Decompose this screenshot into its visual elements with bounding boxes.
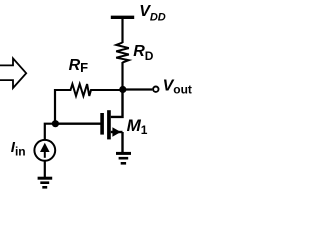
svg-text:RF: RF	[69, 57, 89, 75]
svg-text:Iin: Iin	[11, 139, 26, 158]
Vout open terminal circle	[153, 87, 158, 92]
node gate junction dot	[52, 120, 59, 127]
transistor M1 drain stub	[111, 90, 123, 117]
svg-text:VDD: VDD	[139, 3, 166, 23]
ground under current source	[38, 178, 53, 187]
current source Iin circle	[34, 140, 55, 161]
resistor RF with wires	[55, 84, 120, 96]
VDD supply bar	[111, 16, 134, 19]
wire junction to current source	[45, 124, 55, 141]
wire current source to ground	[44, 161, 46, 178]
wire node to Vout terminal	[123, 88, 153, 90]
transistor M1 channel bar	[107, 110, 111, 139]
svg-text:RD: RD	[133, 43, 154, 63]
svg-text:M1: M1	[127, 116, 148, 137]
ground under transistor	[116, 153, 131, 163]
transistor M1 gate bar	[100, 113, 104, 135]
node output junction dot	[119, 86, 126, 93]
wire RF corner down to gate junction	[54, 89, 56, 124]
input arrow	[0, 58, 26, 88]
wire VDD to RD	[121, 17, 123, 43]
wire RD to output node	[121, 62, 123, 91]
wire junction to gate	[55, 122, 101, 124]
wire source to ground	[121, 132, 123, 154]
svg-text:Vout: Vout	[163, 78, 192, 97]
current source arrow	[40, 143, 50, 158]
transistor M1 source stub with arrow	[111, 127, 123, 136]
resistor RD	[116, 43, 129, 63]
